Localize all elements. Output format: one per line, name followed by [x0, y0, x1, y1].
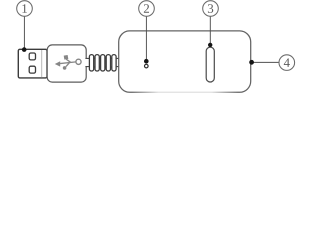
button slot: [206, 47, 214, 82]
logo bottom branch: [66, 63, 70, 67]
boot valley 3: [105, 58, 106, 67]
leader dot 1: [22, 47, 27, 52]
boot valley 4: [111, 58, 112, 67]
logo arrowhead: [55, 61, 60, 66]
USB plug plastic body: [47, 45, 86, 82]
shell contact hole upper: [29, 53, 35, 60]
callout digit 2: [144, 4, 149, 13]
leader dot 3: [208, 43, 212, 47]
device main body: [119, 31, 251, 92]
shell contact hole lower: [29, 66, 35, 73]
logo stem: [58, 62, 76, 64]
boot rib 3: [101, 55, 105, 71]
boot rib 5: [112, 55, 116, 71]
callout circle 4: [279, 55, 295, 71]
USB trident logo U1: [55, 55, 81, 70]
callout digit 3: [208, 4, 213, 13]
leader line 3: [209, 16, 211, 44]
callout circle 3: [203, 1, 219, 17]
callout circle 2: [139, 1, 155, 17]
logo square: [64, 55, 69, 60]
leader line 1: [23, 16, 25, 49]
boot rib 4: [106, 55, 110, 71]
boot valley 2: [99, 58, 100, 67]
strain relief neck A (plug to boot): [85, 58, 89, 66]
leader dot 2: [144, 59, 149, 64]
callout digit 4: [284, 58, 290, 66]
boot valley 1: [94, 58, 95, 67]
logo dot: [63, 66, 67, 70]
boot rib 2: [95, 55, 99, 71]
leader dot 4: [249, 60, 254, 65]
shell seam: [41, 50, 43, 77]
logo top branch: [66, 59, 70, 62]
leader line 2: [145, 16, 147, 61]
strain relief neck B (boot to body): [116, 58, 119, 66]
leader line 4: [251, 61, 279, 63]
LED hole: [145, 64, 149, 68]
logo ring: [76, 59, 81, 64]
boot rib 1: [89, 55, 93, 71]
callout circle 1: [17, 1, 33, 17]
USB plug metal shell: [18, 49, 47, 78]
callout digit 1: [22, 4, 27, 13]
